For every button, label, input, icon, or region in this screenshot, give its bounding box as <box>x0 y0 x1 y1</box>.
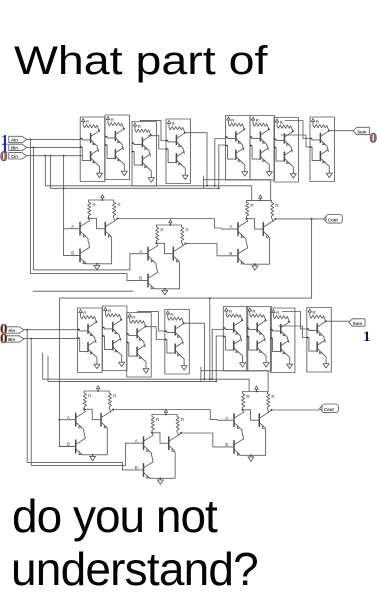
wire U16 out to Sum2 <box>326 320 349 322</box>
wire U4 out to group B <box>185 133 207 186</box>
wire G4 out to G6 input A <box>113 410 217 420</box>
wire link U15 to U16 b <box>278 326 306 338</box>
wire carry stage1 Cout to stage2 <box>59 219 311 446</box>
svg-text:Cin: Cin <box>11 154 18 159</box>
svg-text:Cout: Cout <box>324 407 334 412</box>
junction Cin tap <box>63 155 65 157</box>
junction carry G4 <box>59 419 61 421</box>
junction Ain tap <box>30 139 32 141</box>
wire link U15 to U16 a <box>282 312 306 330</box>
junction carry drop top <box>209 297 211 299</box>
wire Bin2 vertical route to G5 input A <box>31 339 127 466</box>
wire link U11 to U12 b <box>146 327 165 340</box>
svg-text:Bin: Bin <box>8 337 15 342</box>
svg-text:Sum: Sum <box>357 129 366 134</box>
junction Bin tap <box>33 147 35 149</box>
svg-text:Sum: Sum <box>353 321 362 326</box>
caption top: "What part of" <box>14 41 267 81</box>
wire link U11 to U12 a <box>137 311 164 331</box>
nand cell U13 <box>223 307 248 372</box>
junction riser b2 <box>215 381 217 383</box>
input pin Cin <box>9 153 27 159</box>
junction carry drop bottom <box>209 378 211 380</box>
junction carry <box>311 218 313 220</box>
wire link U7 to U8 b <box>281 135 310 147</box>
wire Bin2 to U9 <box>24 338 78 340</box>
wire G6 out to Cout2 <box>272 409 320 411</box>
wire G3 out to Cout <box>276 218 324 220</box>
output pin Cout <box>326 215 342 224</box>
junction U12 out drop <box>204 378 206 380</box>
input pin Ain2 <box>6 327 24 333</box>
svg-text:0: 0 <box>0 149 8 165</box>
nand cell U2 <box>105 115 130 180</box>
nand cell U3 <box>132 122 157 187</box>
junction riser a2 <box>211 378 213 380</box>
junction busB tap <box>50 155 52 157</box>
nand cell U12 <box>165 310 190 375</box>
wire U12 out to group B2 <box>184 323 205 379</box>
svg-text:Ain: Ain <box>8 328 15 333</box>
wire bus under group B 2 <box>215 186 252 201</box>
output pin Sum2 <box>349 319 365 326</box>
wire G1 out to G3 input A <box>118 219 222 229</box>
nand cell U7 <box>274 118 299 183</box>
svg-text:Ain: Ain <box>11 138 18 143</box>
AND gate G5 <box>127 409 185 484</box>
junction U4 out drop <box>206 185 208 187</box>
AND gate G4 <box>59 386 117 461</box>
wire link U3 to U4 b <box>149 136 166 149</box>
svg-text:1: 1 <box>363 329 371 345</box>
nand cell U14 <box>247 307 272 372</box>
nand cell U11 <box>127 313 152 378</box>
nand cell U8 <box>310 117 335 182</box>
nand cell U4 <box>166 119 191 184</box>
AND gate G1 <box>63 195 121 270</box>
input pin Bin2 <box>6 336 24 342</box>
AND gate G6 <box>217 386 275 461</box>
junction Bin2 tap <box>30 338 32 340</box>
wire bus under group B2 1 <box>201 371 268 392</box>
nand cell U15 <box>270 308 295 373</box>
junction riser b <box>218 187 220 189</box>
junction Ain2 tap <box>26 329 28 331</box>
junction riser a <box>214 185 216 187</box>
wire G2 out to G3 input B <box>186 244 222 256</box>
wire carry drop into row 2 <box>209 298 211 379</box>
nand cell U9 <box>78 308 103 373</box>
wire link U7 to U8 a <box>285 121 310 139</box>
wire bus 2 under row 2 <box>48 336 223 381</box>
wire bus under row 1 <box>45 139 225 186</box>
nand cell U16 <box>307 308 332 373</box>
wire G5 out to G6 input B <box>181 433 217 447</box>
wire Ain to U1 <box>27 138 80 140</box>
wire U8 out to Sum <box>329 130 353 132</box>
wire link U3 to U4 a <box>140 120 166 140</box>
svg-text:Bin: Bin <box>11 145 18 150</box>
nand cell U6 <box>250 116 275 181</box>
wire stub <box>203 176 205 188</box>
output pin Cout2 <box>322 404 338 413</box>
wire bottom border stage1 <box>33 290 133 292</box>
wire Ain vertical route to G2 input B <box>30 139 131 280</box>
wire Bin to U1 <box>27 146 80 148</box>
nand cell U10 <box>102 306 127 371</box>
wire bus under group B 1 <box>204 180 271 201</box>
junction G1 A <box>63 188 65 190</box>
input pin Ain <box>9 136 27 142</box>
svg-text:0: 0 <box>0 331 8 347</box>
svg-text:0: 0 <box>370 130 377 146</box>
wire Cin vertical route to G1 inputs <box>62 156 64 256</box>
nand cell U5 <box>225 116 250 181</box>
wire bus under group B2 2 <box>212 379 249 391</box>
caption bottom line 2: "understand?" <box>11 546 258 592</box>
wire stub 2 <box>200 367 202 381</box>
wire bus 2 under row 1 <box>51 145 226 188</box>
wire Bin vertical route to G2 input A <box>33 147 131 270</box>
wire Cin run <box>27 155 83 157</box>
wire Ain2 vertical route to G5 input B <box>27 330 127 470</box>
output pin Sum <box>353 127 369 134</box>
wire Ain2 to U9 <box>24 329 78 331</box>
svg-text:Cout: Cout <box>328 218 338 223</box>
wire bus under row 2 <box>43 330 224 380</box>
AND gate G3 <box>221 195 279 270</box>
nand cell U1 <box>80 117 105 182</box>
input pin Bin <box>9 144 27 150</box>
junction busA tap <box>44 155 46 157</box>
AND gate G2 <box>131 220 189 295</box>
caption bottom line 1: "do you not" <box>12 493 217 539</box>
